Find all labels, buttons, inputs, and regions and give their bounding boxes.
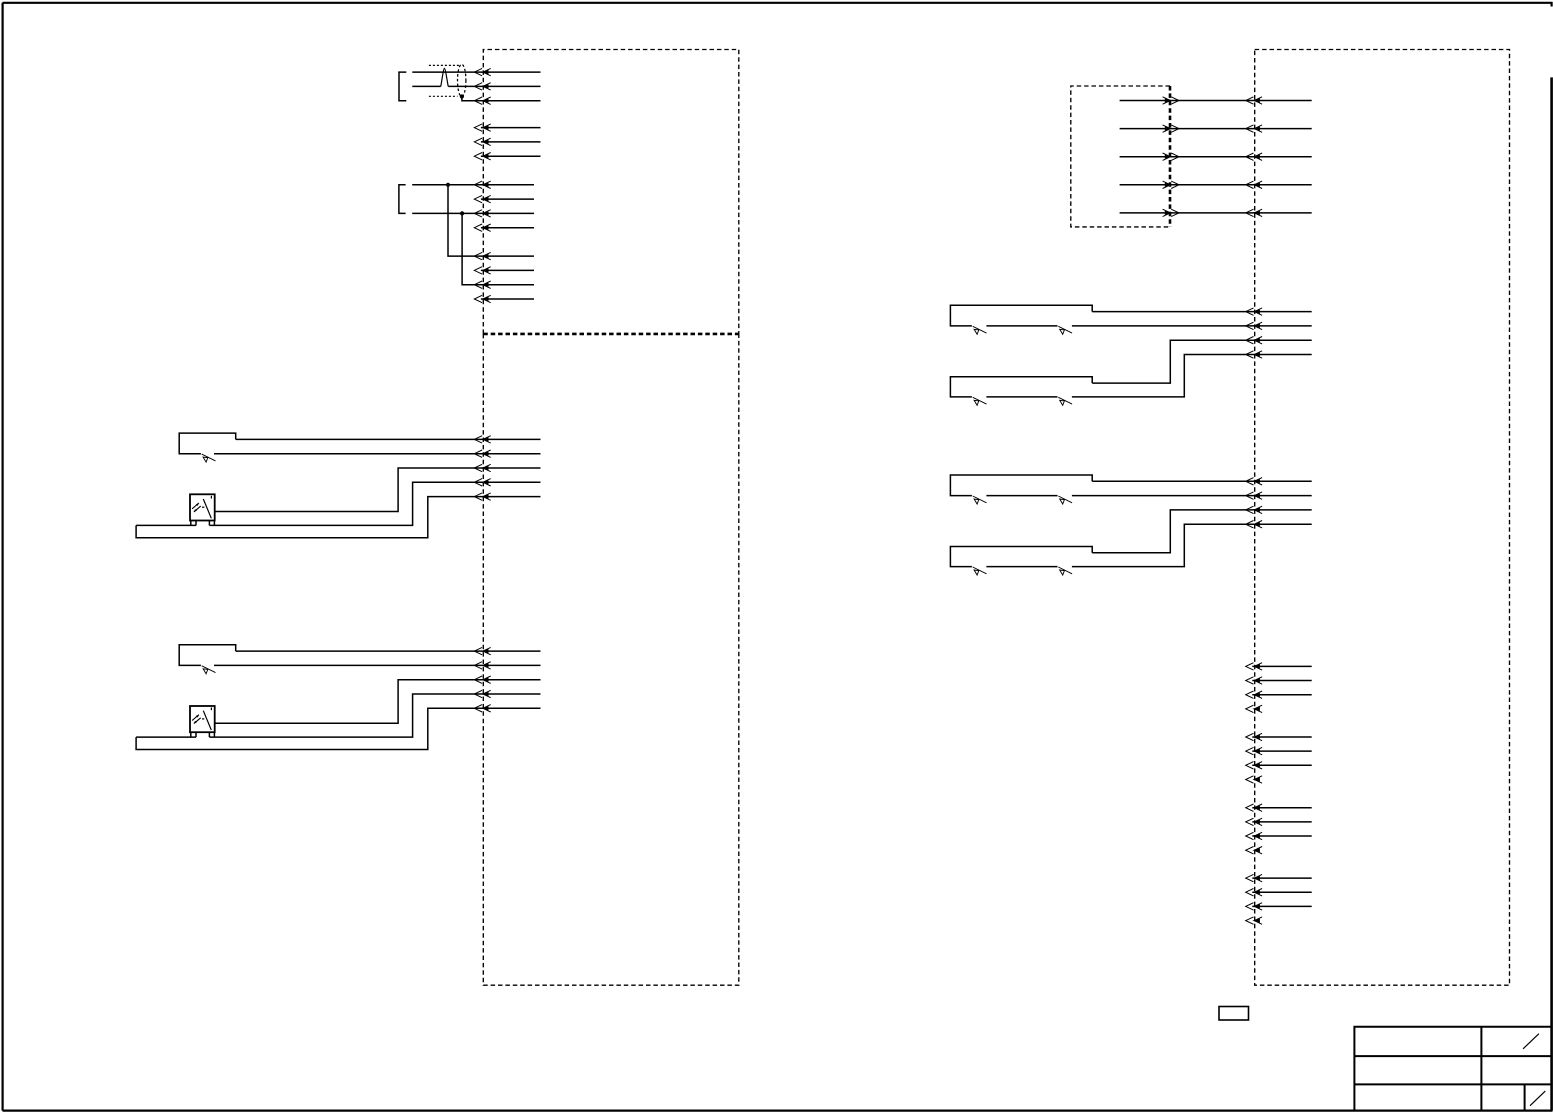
border frame right xyxy=(1550,77,1553,1110)
pin arrow P3-41 xyxy=(1246,478,1262,485)
sensor B2 body xyxy=(190,706,215,732)
wire W1-2 (bottom of pair, with twist) xyxy=(412,85,441,87)
wire B2.out xyxy=(215,680,541,724)
wire stub P1-8 xyxy=(481,198,534,200)
title block small column line xyxy=(1524,1084,1526,1110)
pin arrow P3-52 xyxy=(1246,677,1262,684)
pin arrow P1-12 xyxy=(474,267,490,274)
pin arrow P3-81 xyxy=(1246,874,1262,881)
pin arrow P1-2 xyxy=(474,83,490,90)
wire stub P3-51 xyxy=(1252,665,1311,667)
reference frame (small rectangle) xyxy=(1219,1007,1249,1021)
wire B3.1 xyxy=(1120,100,1312,102)
border frame top xyxy=(3,2,1553,4)
pin arrow P2-24 xyxy=(474,690,490,697)
pin arrow P1-11 xyxy=(474,252,490,259)
pin arrow P3-53 xyxy=(1246,691,1262,698)
border frame bottom xyxy=(3,1109,1553,1111)
wire stub P3-82 xyxy=(1252,891,1311,893)
pin arrow P3-84 xyxy=(1246,917,1262,924)
pin arrow P3-5 (in) xyxy=(1246,209,1262,216)
wire S1.2 xyxy=(214,453,541,455)
switch S4b contact arrow 1 xyxy=(973,567,987,575)
pin arrow P3-32 xyxy=(1246,322,1262,329)
pin arrow P3-2 (in) xyxy=(1246,125,1262,132)
switch S4b contact arrow 2 xyxy=(1058,567,1072,575)
wire stub P3-63 xyxy=(1252,764,1311,766)
wire S2.2 xyxy=(214,664,541,666)
pin arrow P3-51 xyxy=(1246,663,1262,670)
title block outline xyxy=(1354,1027,1551,1111)
pin arrow P3-3 (in) xyxy=(1246,153,1262,160)
device boundary box B3 (small dashed) xyxy=(1071,86,1170,227)
pin arrow P3-63 xyxy=(1246,762,1262,769)
cable bracket W2 xyxy=(399,185,406,214)
title block slash mark 2 xyxy=(1530,1091,1545,1106)
switch S3b contact arrow 2 xyxy=(1058,397,1072,405)
wire S3b.2a xyxy=(986,396,1057,398)
pin arrow P3-1 (in) xyxy=(1246,97,1262,104)
pin arrow P1-14 xyxy=(474,295,490,302)
pin arrow P3-74 xyxy=(1246,847,1262,854)
wire B3.3 xyxy=(1120,156,1312,158)
pin arrow P3-82 xyxy=(1246,889,1262,896)
switch S3a body (flag outline) xyxy=(950,305,1092,326)
wire W1-1 (top of pair) xyxy=(412,71,540,73)
wire S4b.1 xyxy=(1092,510,1312,553)
pin arrow B3-1 (out) xyxy=(1163,97,1179,104)
wire S1.1 xyxy=(236,438,541,440)
bus wire 1c xyxy=(136,497,540,538)
pin arrow P3-44 xyxy=(1246,521,1262,528)
pin arrow P3-72 xyxy=(1246,818,1262,825)
pin arrow P1-8 xyxy=(474,195,490,202)
title block column line xyxy=(1480,1027,1482,1111)
pin arrow B3-5 (out) xyxy=(1163,209,1179,216)
bus wire 2a xyxy=(136,736,196,738)
wire B3.2 xyxy=(1120,128,1312,130)
wire stub P3-53 xyxy=(1252,694,1311,696)
pin arrow P3-83 xyxy=(1246,903,1262,910)
device boundary box B3 right edge (bold dashed) xyxy=(1169,86,1172,227)
pin arrow P2-23 xyxy=(474,676,490,683)
title block row line 2 xyxy=(1354,1083,1551,1085)
pin arrow B3-4 (out) xyxy=(1163,181,1179,188)
pin arrow P3-61 xyxy=(1246,733,1262,740)
wire S3a.1 xyxy=(1092,311,1312,313)
pin arrow P1-5 xyxy=(474,138,490,145)
connector boundary box P1/P2 shared bottom edge (bold dashed) xyxy=(483,333,739,336)
wire S2.1 xyxy=(236,650,541,652)
pin arrow P3-34 xyxy=(1246,351,1262,358)
wire W2-1 branch xyxy=(448,185,534,256)
switch S3b contact arrow 1 xyxy=(973,397,987,405)
twisted pair twist symbol xyxy=(441,68,448,86)
pin arrow P2-21 xyxy=(474,647,490,654)
pin arrow P1-10 xyxy=(474,224,490,231)
wire stub P3-72 xyxy=(1252,821,1311,823)
bus wire 1a xyxy=(136,524,196,526)
pin arrow P3-33 xyxy=(1246,337,1262,344)
pin arrow P1-6 xyxy=(474,153,490,160)
sensor B1 body xyxy=(190,494,215,520)
switch S1 contact arrow xyxy=(202,454,216,462)
sensor B1 leg left xyxy=(191,521,196,526)
shield tap junction dot xyxy=(460,94,464,98)
pin arrow P3-71 xyxy=(1246,804,1262,811)
connector boundary box P1 (left upper, dashed) xyxy=(483,50,739,334)
wire stub P3-61 xyxy=(1252,736,1311,738)
wire S3b.2b xyxy=(1072,355,1312,397)
wire S4a.1 xyxy=(1092,480,1312,482)
wire S4a.2b xyxy=(1072,495,1312,497)
wire W2-1 xyxy=(412,184,534,186)
junction dot W2-2 xyxy=(460,211,464,215)
switch S3a contact arrow 1 xyxy=(973,326,987,334)
sensor B2 leg right xyxy=(209,732,214,737)
bus wire 2b xyxy=(209,694,540,737)
cable screen boundary (dotted) bottom xyxy=(429,95,458,97)
title block row line 1 xyxy=(1354,1055,1551,1057)
wire stub P3-62 xyxy=(1252,750,1311,752)
switch S4b body (flag outline) xyxy=(950,547,1092,567)
switch S1 body (flag outline) xyxy=(179,433,236,454)
switch S4a contact arrow 2 xyxy=(1058,496,1072,504)
sensor B1 leg right xyxy=(209,521,214,526)
switch S4a contact arrow 1 xyxy=(973,496,987,504)
switch S3a contact arrow 2 xyxy=(1058,326,1072,334)
pin arrow P2-12 xyxy=(474,450,490,457)
switch S2 contact arrow xyxy=(202,666,216,674)
cable screen boundary (dotted) top xyxy=(429,64,459,66)
pin arrow P2-22 xyxy=(474,662,490,669)
wire stub P3-73 xyxy=(1252,835,1311,837)
sensor B2 leg left xyxy=(191,732,196,737)
pin arrow P3-43 xyxy=(1246,506,1262,513)
wire stub P1-10 xyxy=(481,227,534,229)
wire W2-2 xyxy=(412,212,534,214)
shield symbol (dashed ellipse) xyxy=(458,64,466,96)
pin arrow P2-14 xyxy=(474,479,490,486)
connector boundary box P2 (left lower, dashed) xyxy=(483,334,739,985)
pin arrow P3-42 xyxy=(1246,492,1262,499)
pin arrow P3-73 xyxy=(1246,832,1262,839)
pin arrow P1-9 xyxy=(474,210,490,217)
wire B3.4 xyxy=(1120,184,1312,186)
pin arrow P2-13 xyxy=(474,464,490,471)
pin arrow P3-31 xyxy=(1246,308,1262,315)
pin arrow P2-11 xyxy=(474,436,490,443)
pin arrow P2-25 xyxy=(474,705,490,712)
pin arrow P1-4 xyxy=(474,124,490,131)
border frame right upper tick xyxy=(1550,2,1552,7)
pin arrow P3-54 xyxy=(1246,705,1262,712)
wire stub P1-4 xyxy=(481,127,541,129)
wire B1.out xyxy=(215,468,541,512)
pin arrow P1-1 xyxy=(474,68,490,75)
wire S3a.2a xyxy=(986,325,1057,327)
pin arrow P3-4 (in) xyxy=(1246,181,1262,188)
connector boundary box P3 (right, dashed) xyxy=(1255,50,1510,986)
wire stub P1-5 xyxy=(481,141,541,143)
wire stub P3-71 xyxy=(1252,807,1311,809)
wire B3.5 xyxy=(1120,212,1312,214)
pin arrow P3-62 xyxy=(1246,747,1262,754)
wire stub P3-83 xyxy=(1252,905,1311,907)
bus wire 1b xyxy=(209,482,540,525)
wire W2-2 branch xyxy=(462,213,534,284)
switch S4a body (flag outline) xyxy=(950,475,1092,496)
wire W1-3 (shield drain) xyxy=(462,97,541,101)
wire S3b.1 xyxy=(1092,340,1312,383)
wire S4b.2b xyxy=(1072,524,1312,566)
pin arrow P3-64 xyxy=(1246,776,1262,783)
wire stub P1-6 xyxy=(481,155,541,157)
wire stub P3-52 xyxy=(1252,680,1311,682)
pin arrow B3-2 (out) xyxy=(1163,125,1179,132)
switch S3b body (flag outline) xyxy=(950,377,1092,397)
title block slash mark 1 xyxy=(1523,1034,1539,1049)
wire stub P3-81 xyxy=(1252,877,1311,879)
wire stub P1-12 xyxy=(481,269,534,271)
pin arrow P1-7 xyxy=(474,181,490,188)
pin arrow P1-13 xyxy=(474,281,490,288)
wire S3a.2b xyxy=(1072,325,1312,327)
switch S2 body (flag outline) xyxy=(179,645,236,666)
wire stub P1-14 xyxy=(481,298,534,300)
wire S4b.2a xyxy=(986,566,1057,568)
pin arrow P1-3 xyxy=(474,97,490,104)
pin arrow P2-15 xyxy=(474,493,490,500)
border frame left xyxy=(1,3,3,1111)
junction dot W2-1 xyxy=(446,183,450,187)
bus wire 2c xyxy=(136,708,540,749)
wire S4a.2a xyxy=(986,495,1057,497)
cable bracket W1 xyxy=(399,72,406,101)
pin arrow B3-3 (out) xyxy=(1163,153,1179,160)
